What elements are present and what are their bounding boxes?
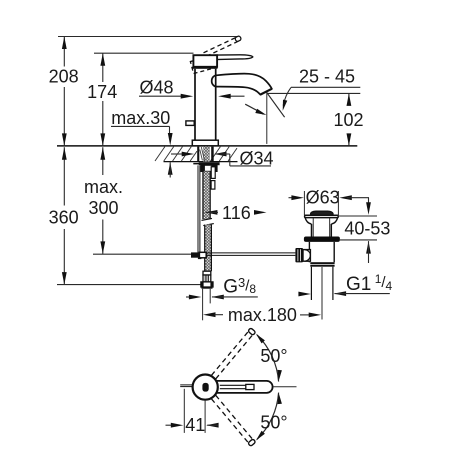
svg-text:360: 360 bbox=[49, 208, 79, 228]
svg-text:116: 116 bbox=[222, 203, 251, 223]
svg-text:max.30: max.30 bbox=[111, 108, 170, 128]
svg-text:300: 300 bbox=[88, 198, 118, 218]
svg-text:208: 208 bbox=[49, 67, 79, 87]
svg-text:50°: 50° bbox=[260, 413, 287, 433]
svg-text:max.180: max.180 bbox=[228, 305, 297, 325]
svg-text:50°: 50° bbox=[260, 346, 287, 366]
svg-text:Ø34: Ø34 bbox=[239, 149, 273, 169]
svg-text:max.: max. bbox=[84, 177, 123, 197]
svg-text:41: 41 bbox=[185, 415, 205, 435]
svg-text:102: 102 bbox=[333, 110, 363, 130]
svg-text:174: 174 bbox=[87, 82, 117, 102]
svg-text:25 - 45: 25 - 45 bbox=[299, 66, 355, 86]
svg-text:Ø48: Ø48 bbox=[139, 77, 173, 97]
svg-text:Ø63: Ø63 bbox=[306, 187, 340, 207]
svg-text:40-53: 40-53 bbox=[344, 218, 390, 238]
